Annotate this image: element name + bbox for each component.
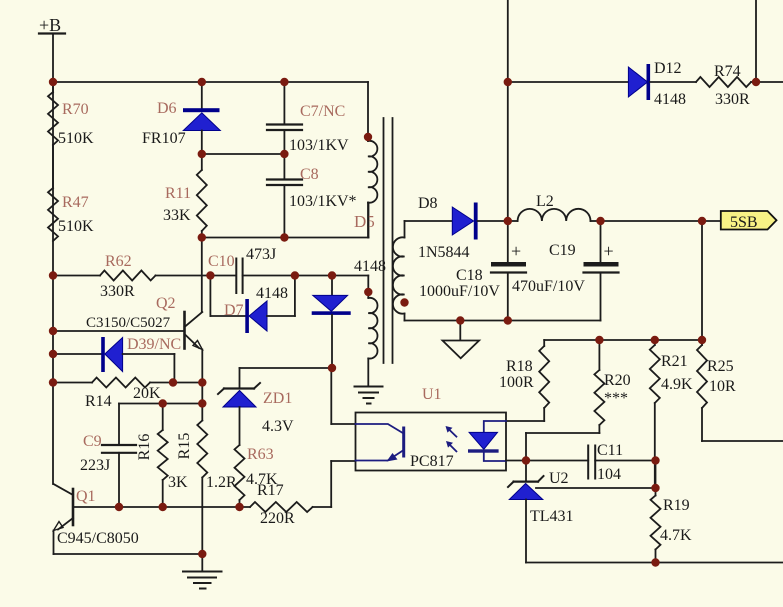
- transistor U1 phototransistor: [356, 424, 404, 462]
- svg-text:4.7K: 4.7K: [660, 527, 692, 544]
- resistor R20: [526, 340, 631, 461]
- wire Q2 emitter down: [201, 350, 203, 383]
- svg-text:4.9K: 4.9K: [661, 376, 693, 393]
- wire top rail drop to transformer: [367, 82, 369, 137]
- wire D12 to R74: [650, 81, 696, 83]
- svg-text:4148: 4148: [354, 258, 386, 275]
- svg-text:+: +: [604, 241, 614, 261]
- wire TL431 ref net: [536, 487, 656, 489]
- svg-text:4148: 4148: [654, 91, 686, 108]
- resistor R21: [650, 340, 693, 488]
- zener ZD1: [218, 383, 294, 435]
- wire right vertical (from image top): [755, 0, 757, 82]
- svg-text:R20: R20: [604, 372, 631, 389]
- wire U1 cathode to C11: [506, 460, 588, 462]
- svg-text:PC817: PC817: [410, 453, 454, 470]
- wire R21/R19 vertical: [655, 461, 657, 496]
- svg-text:+: +: [511, 241, 521, 261]
- svg-text:TL431: TL431: [530, 508, 574, 525]
- svg-text:C3150/C5027: C3150/C5027: [86, 315, 171, 331]
- wire D12 row left: [508, 81, 629, 83]
- svg-text:L2: L2: [536, 193, 554, 210]
- resistor R16: [136, 404, 188, 508]
- transformer primary winding: [368, 137, 377, 238]
- wire R11 node down to Q2 collector: [201, 238, 203, 313]
- svg-text:1.2R: 1.2R: [206, 474, 237, 491]
- wire net to aux winding: [332, 275, 368, 277]
- wire D39 to R14 node: [123, 353, 175, 355]
- wire D7 anode rise: [267, 315, 295, 317]
- wire ZD1 net: [240, 367, 333, 369]
- wire top-left vertical (from image top): [507, 0, 509, 221]
- svg-text:Q2: Q2: [156, 295, 176, 312]
- svg-text:U1: U1: [422, 386, 442, 403]
- wire rail to R62: [53, 275, 100, 277]
- svg-text:20K: 20K: [133, 385, 161, 402]
- svg-text:5SB: 5SB: [730, 214, 758, 231]
- svg-text:C7/NC: C7/NC: [300, 103, 345, 120]
- svg-text:104: 104: [597, 466, 621, 483]
- svg-text:R11: R11: [165, 185, 191, 202]
- svg-text:3K: 3K: [168, 474, 188, 491]
- capacitor C10: [208, 246, 276, 293]
- svg-text:1000uF/10V: 1000uF/10V: [419, 283, 500, 300]
- resistor R19: [651, 496, 693, 563]
- resistor R74: [696, 63, 751, 108]
- svg-text:D6: D6: [157, 100, 177, 117]
- svg-text:103/1KV*: 103/1KV*: [289, 193, 357, 210]
- svg-text:4.3V: 4.3V: [262, 418, 294, 435]
- svg-text:D5: D5: [354, 212, 375, 231]
- wire C7 bottom: [283, 130, 285, 154]
- capacitor C7: [267, 103, 349, 154]
- transistor Q1: [54, 484, 139, 547]
- svg-text:220R: 220R: [260, 510, 295, 527]
- transformer secondary winding: [393, 221, 405, 321]
- wire left rail: [52, 82, 54, 484]
- capacitor C9: [80, 433, 136, 474]
- resistor R62: [100, 253, 156, 300]
- svg-text:C8: C8: [300, 166, 319, 183]
- wire C9 bottom: [118, 453, 120, 507]
- svg-text:470uF/10V: 470uF/10V: [512, 278, 585, 295]
- wire C8 bottom: [283, 185, 285, 238]
- capacitor C18: [419, 221, 526, 321]
- svg-text:473J: 473J: [246, 246, 276, 263]
- wire +B stem: [52, 34, 54, 83]
- svg-text:D39/NC: D39/NC: [127, 336, 181, 353]
- capacitor C19: [512, 221, 619, 321]
- svg-text:Q1: Q1: [76, 488, 96, 505]
- wire emitter node down: [201, 383, 203, 404]
- wire rail to D39: [53, 353, 103, 355]
- wire feedback top net: [544, 339, 702, 341]
- wire R74 to right edge: [751, 81, 783, 83]
- svg-text:4148: 4148: [256, 285, 288, 302]
- wire L2 to 5SB: [601, 220, 721, 222]
- wire D6 top: [201, 82, 203, 110]
- svg-text:R15: R15: [176, 433, 193, 460]
- wire C7 top: [283, 82, 285, 125]
- wire R70-R47: [52, 82, 54, 92]
- svg-text:R63: R63: [247, 446, 274, 463]
- op-amp U1 optocoupler PC817: [356, 386, 507, 471]
- svg-text:33K: 33K: [163, 207, 191, 224]
- svg-text:100R: 100R: [499, 374, 534, 391]
- ground (secondary, open triangle): [443, 321, 480, 359]
- svg-text:R19: R19: [663, 497, 690, 514]
- capacitor C8: [267, 166, 357, 210]
- svg-text:1N5844: 1N5844: [418, 244, 470, 261]
- diode D7: [224, 285, 288, 333]
- capacitor C11: [588, 442, 623, 483]
- svg-text:510K: 510K: [58, 218, 94, 235]
- resistor R15: [176, 404, 237, 555]
- node +B terminal: [39, 15, 65, 35]
- svg-text:330R: 330R: [100, 283, 135, 300]
- svg-text:C9: C9: [83, 433, 102, 450]
- ground (transformer aux): [355, 387, 383, 404]
- wire net C8/R11 to transformer: [202, 237, 369, 239]
- svg-text:R25: R25: [707, 358, 734, 375]
- wire R14 to nodes: [150, 382, 202, 384]
- diode D6: [142, 100, 220, 147]
- svg-text:R17: R17: [257, 482, 284, 499]
- wire U2 anode down: [525, 500, 527, 563]
- wire U1 collector to D5 node: [331, 423, 355, 425]
- svg-text:R14: R14: [85, 393, 112, 410]
- resistor R25: [697, 340, 783, 441]
- diode U1 LED: [468, 421, 506, 461]
- svg-text:510K: 510K: [58, 130, 94, 147]
- wire R17 to U1 emitter: [313, 506, 332, 508]
- svg-text:C11: C11: [597, 442, 623, 459]
- svg-text:103/1KV: 103/1KV: [289, 137, 349, 154]
- U1 light arrows: [446, 426, 457, 451]
- wire R62 to C10: [156, 275, 237, 277]
- wire D8 to C18 node: [478, 220, 508, 222]
- diode D39: [101, 336, 181, 372]
- resistor R47: [48, 188, 94, 241]
- wire secondary to D8: [405, 220, 453, 222]
- svg-text:R70: R70: [62, 101, 89, 118]
- resistor R18: [499, 340, 549, 421]
- svg-text:FR107: FR107: [142, 130, 186, 147]
- svg-text:C10: C10: [208, 253, 235, 270]
- svg-text:U2: U2: [549, 470, 569, 487]
- ground (bottom left): [183, 554, 222, 589]
- diode D8: [418, 195, 478, 261]
- wire C10 to D5: [243, 275, 332, 277]
- wire Q2 base net: [53, 330, 184, 332]
- wire C11 node to U2: [525, 461, 527, 482]
- svg-text:***: ***: [604, 390, 628, 407]
- wire Q1 base net: [73, 506, 250, 508]
- wire C11 to R21 node: [595, 460, 655, 462]
- diode D5 4148: [312, 212, 386, 368]
- transistor Q2: [86, 295, 202, 350]
- wire node D6/R11 to C7/C8: [202, 153, 285, 155]
- wire C9/R16 net: [119, 403, 202, 405]
- wire D7 cathode drop: [209, 276, 211, 317]
- resistor R70: [48, 92, 94, 147]
- svg-text:C18: C18: [456, 267, 483, 284]
- wire ZD1 to R63: [239, 407, 241, 445]
- wire bottom right rail: [526, 562, 783, 564]
- svg-text:D7: D7: [224, 302, 244, 319]
- svg-text:R47: R47: [62, 194, 89, 211]
- wire rail to R14: [53, 382, 92, 384]
- wire C8 top: [283, 154, 285, 180]
- svg-text:C19: C19: [549, 242, 576, 259]
- svg-text:R62: R62: [105, 253, 132, 270]
- svg-text:C945/C8050: C945/C8050: [57, 530, 139, 547]
- diode D12: [628, 60, 686, 108]
- svg-text:D8: D8: [418, 195, 438, 212]
- resistor R63: [235, 445, 279, 507]
- svg-text:R74: R74: [714, 63, 741, 80]
- wire secondary bottom net: [405, 320, 601, 322]
- wire 5SB node down: [701, 221, 703, 340]
- svg-text:330R: 330R: [715, 91, 750, 108]
- svg-text:R16: R16: [136, 434, 153, 461]
- transformer aux winding: [368, 292, 377, 386]
- resistor R17: [250, 482, 313, 527]
- transistor U2 TL431: [508, 470, 574, 525]
- svg-text:R21: R21: [661, 353, 688, 370]
- node 5SB output flag: [721, 211, 777, 231]
- svg-text:D12: D12: [654, 60, 682, 77]
- resistor R14: [85, 378, 161, 411]
- svg-text:R18: R18: [506, 358, 533, 375]
- wire D6 to node: [201, 131, 203, 155]
- wire Q1 emitter to ground: [53, 531, 55, 555]
- wire top rail: [53, 81, 368, 83]
- svg-text:+B: +B: [39, 15, 61, 35]
- svg-text:10R: 10R: [709, 378, 736, 395]
- inductor L2: [508, 193, 601, 221]
- resistor R11: [163, 154, 207, 238]
- svg-text:ZD1: ZD1: [263, 390, 292, 407]
- svg-text:223J: 223J: [80, 457, 110, 474]
- transformer core: [384, 118, 393, 363]
